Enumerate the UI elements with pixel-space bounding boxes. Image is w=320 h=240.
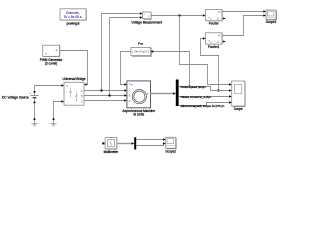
svg-text:Tm: Tm bbox=[129, 83, 134, 87]
wire VM signal to Scope input 1 bbox=[180, 16, 230, 85]
wire electromagnetic torque to Scope input 4 bbox=[179, 103, 230, 106]
svg-text:Scope: Scope bbox=[234, 107, 243, 111]
svg-text:B: B bbox=[129, 94, 131, 98]
svg-text:powergui: powergui bbox=[67, 22, 80, 26]
wire demux output 2 to Scope2 bbox=[136, 144, 164, 146]
bus selector bbox=[176, 80, 179, 107]
svg-text:<Rotor speed (wm)>: <Rotor speed (wm)> bbox=[180, 85, 206, 89]
wire stator current tap to Fourier1 input bbox=[201, 39, 219, 91]
Fourier block bbox=[206, 9, 223, 25]
svg-text:-: - bbox=[144, 17, 145, 20]
demux bbox=[134, 137, 136, 149]
svg-text:A: A bbox=[129, 89, 131, 93]
svg-text:Ts = 5e-05 s.: Ts = 5e-05 s. bbox=[64, 15, 83, 19]
svg-text:(2-Level): (2-Level) bbox=[45, 61, 57, 65]
powergui block bbox=[60, 9, 87, 26]
svg-text:1.04e-4*u(1)^2: 1.04e-4*u(1)^2 bbox=[132, 50, 150, 54]
wire rotor speed to Scope input 2 bbox=[179, 87, 230, 91]
wire Fourier mag output to Scope1 input 1 bbox=[222, 11, 264, 13]
Multimeter block bbox=[102, 138, 118, 155]
wire Fourier1 mag output to Scope1 input 2 bbox=[222, 16, 264, 36]
Voltage Measurement block bbox=[131, 12, 162, 24]
Scope1 block bbox=[266, 10, 277, 24]
wire VM - tap on phase B bbox=[109, 18, 111, 96]
wire Fcn output to machine Tm bbox=[121, 52, 131, 85]
Scope block bbox=[232, 81, 246, 111]
svg-text:P: P bbox=[56, 49, 58, 53]
wire DC- down to ground bbox=[34, 103, 36, 119]
svg-text:Scope2: Scope2 bbox=[165, 149, 176, 153]
wire phase B bbox=[84, 95, 125, 97]
DC Voltage Source bbox=[2, 91, 38, 104]
wire phase C bbox=[84, 100, 125, 102]
wire machine m output to bus selector bbox=[151, 93, 175, 95]
svg-text:A: A bbox=[81, 89, 83, 93]
svg-text:<Electromagnetic torque Te (N*: <Electromagnetic torque Te (N*m)> bbox=[180, 104, 225, 108]
wire phase A bbox=[84, 90, 125, 92]
svg-text:B: B bbox=[81, 94, 83, 98]
wire VM output to Fourier input bbox=[151, 15, 203, 17]
svg-text:<Stator current is_a (A)>: <Stator current is_a (A)> bbox=[180, 95, 211, 99]
Fourier1 phase output stub bbox=[222, 41, 224, 43]
Universal Bridge block bbox=[62, 77, 85, 105]
svg-text:DC Voltage Source: DC Voltage Source bbox=[2, 95, 29, 99]
wire VM + tap on phase A bbox=[101, 14, 103, 91]
ground G2 bbox=[50, 118, 56, 126]
PWM Generator block bbox=[40, 45, 63, 65]
wire DC+ to bridge + input bbox=[35, 86, 62, 92]
Asynchronous Machine block bbox=[122, 81, 155, 117]
svg-text:Voltage Measurement: Voltage Measurement bbox=[131, 20, 162, 24]
Fcn block bbox=[131, 41, 152, 56]
Fourier phase output stub bbox=[222, 18, 224, 20]
svg-text:Fourier1: Fourier1 bbox=[208, 45, 220, 49]
wire rotor speed to Fcn input bbox=[153, 52, 190, 87]
svg-text:Fourier: Fourier bbox=[209, 21, 219, 25]
svg-text:m: m bbox=[147, 92, 149, 95]
wire stator current to Scope input 3 bbox=[179, 96, 230, 98]
wire PWM P output to bridge g bbox=[60, 51, 88, 85]
Scope2 block bbox=[165, 137, 176, 153]
wire bridge - input to ground bbox=[54, 102, 62, 119]
wire VM + input bbox=[102, 13, 141, 15]
svg-text:Universal Bridge: Universal Bridge bbox=[62, 77, 85, 81]
svg-text:+: + bbox=[30, 91, 32, 95]
svg-text:Fcn: Fcn bbox=[138, 41, 143, 45]
wire demux output 1 to Scope2 bbox=[136, 139, 163, 141]
wire VM - input bbox=[110, 17, 141, 19]
svg-text:Scope1: Scope1 bbox=[266, 20, 277, 24]
svg-text:C: C bbox=[81, 99, 83, 103]
svg-text:C: C bbox=[129, 99, 131, 103]
wire multimeter to demux bbox=[117, 143, 132, 145]
svg-text:-: - bbox=[30, 100, 31, 104]
junction node VM output bbox=[179, 15, 181, 17]
Fourier1 block bbox=[206, 33, 223, 49]
ground G1 bbox=[31, 118, 37, 126]
svg-text:SI Units: SI Units bbox=[133, 113, 144, 117]
svg-text:Multimeter: Multimeter bbox=[104, 150, 119, 154]
